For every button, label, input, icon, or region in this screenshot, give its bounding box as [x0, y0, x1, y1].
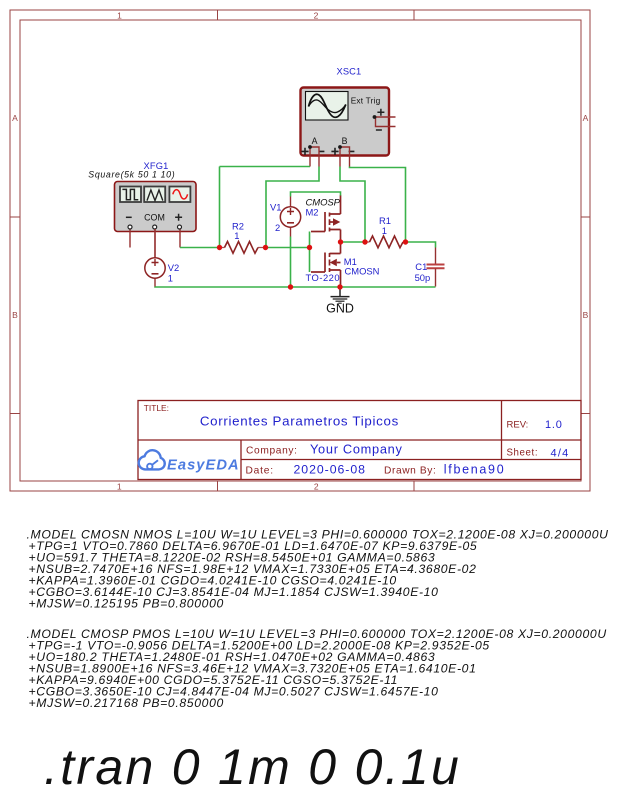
svg-text:GND: GND: [326, 302, 354, 316]
svg-text:V1: V1: [270, 202, 281, 213]
svg-text:1: 1: [234, 230, 239, 241]
ext trig pin: [373, 109, 396, 130]
wire V1 minus down to ground rail: [290, 237, 292, 288]
voltage source V2: [145, 229, 179, 287]
spice model text CMOSN: [27, 528, 609, 611]
svg-text:TITLE:: TITLE:: [144, 403, 169, 413]
svg-text:50p: 50p: [415, 272, 431, 283]
svg-text:Date:: Date:: [246, 465, 274, 476]
wire A+ horizontal: [220, 166, 311, 168]
svg-text:V2: V2: [168, 262, 179, 273]
svg-text:Corrientes Parametros Tipicos: Corrientes Parametros Tipicos: [200, 413, 399, 428]
pin - stub: [129, 229, 131, 248]
svg-text:Square(5k 50 1 10): Square(5k 50 1 10): [88, 170, 175, 180]
spice model text CMOSP: [27, 627, 607, 710]
wire B- to R1 right node: [350, 167, 406, 243]
wire R2 to gate bracket: [265, 247, 310, 249]
wire top rail V1 to M2 source: [291, 192, 341, 197]
wire gate bracket vertical: [309, 232, 311, 273]
junction node V1 minus: [288, 284, 293, 289]
junction node drain: [338, 239, 343, 244]
wire R1 right to C1 top: [406, 242, 436, 248]
resistor R1: [365, 215, 406, 248]
svg-text:1: 1: [382, 225, 387, 236]
svg-text:A: A: [583, 113, 589, 123]
svg-text:2020-06-08: 2020-06-08: [294, 463, 366, 477]
svg-text:Your Company: Your Company: [310, 442, 403, 457]
wire A+ vertical to input node: [219, 167, 221, 248]
junction node R2 right: [263, 245, 268, 250]
wire A- to gate node: [266, 167, 319, 248]
svg-text:TO-220: TO-220: [306, 272, 341, 283]
svg-text:B: B: [342, 136, 348, 146]
svg-text:2: 2: [314, 482, 319, 492]
svg-text:M2: M2: [306, 207, 319, 218]
scope channel A pins: [301, 145, 324, 166]
scope channel B pins: [331, 145, 354, 166]
svg-text:Drawn By:: Drawn By:: [384, 465, 436, 476]
wire XFG+ to node A: [180, 247, 220, 249]
junction node ground: [337, 284, 342, 289]
svg-text:Company:: Company:: [246, 445, 298, 456]
wire B+ to drain node: [340, 167, 365, 243]
voltage source V1: [270, 197, 301, 237]
svg-text:+MJSW=0.125195 PB=0.800000: +MJSW=0.125195 PB=0.800000: [29, 597, 224, 611]
svg-text:1: 1: [117, 482, 122, 492]
svg-text:1.0: 1.0: [545, 419, 563, 431]
wire node A to R2: [220, 247, 223, 249]
ground: [326, 287, 354, 316]
svg-text:REV:: REV:: [507, 419, 529, 430]
junction node R1 right: [403, 239, 408, 244]
transistor M2 (PMOS CMOSP): [306, 196, 341, 243]
pin COM stub: [154, 229, 156, 258]
svg-text:4/4: 4/4: [551, 448, 570, 460]
resistor R2: [220, 221, 265, 254]
svg-text:CMOSN: CMOSN: [345, 266, 380, 277]
svg-text:2: 2: [314, 11, 319, 21]
svg-text:EasyEDA: EasyEDA: [167, 458, 240, 474]
svg-text:B: B: [12, 310, 18, 320]
svg-text:B: B: [583, 310, 589, 320]
svg-text:1: 1: [168, 272, 173, 283]
oscilloscope XSC1: [301, 67, 396, 167]
EasyEDA logo: [139, 450, 240, 473]
sheet frame: [10, 10, 590, 491]
capacitor C1: [415, 248, 445, 287]
svg-text:+MJSW=0.217168 PB=0.850000: +MJSW=0.217168 PB=0.850000: [29, 696, 224, 710]
svg-text:lfbena90: lfbena90: [444, 463, 506, 477]
svg-text:Sheet:: Sheet:: [507, 448, 539, 459]
svg-text:2: 2: [275, 222, 280, 233]
transistor M1 (NMOS CMOSN): [306, 242, 380, 287]
svg-text:.tran 0 1m 0 0.1u: .tran 0 1m 0 0.1u: [44, 739, 461, 795]
svg-text:Ext Trig: Ext Trig: [351, 96, 381, 106]
function generator XFG1: [88, 161, 196, 257]
junction node gate: [307, 245, 312, 250]
junction node R1 left: [362, 239, 367, 244]
svg-text:A: A: [312, 136, 318, 146]
pin + stub: [179, 229, 181, 248]
svg-text:1: 1: [117, 11, 122, 21]
svg-text:XSC1: XSC1: [337, 67, 362, 77]
title block: [138, 401, 581, 480]
svg-text:C1: C1: [415, 261, 427, 272]
svg-text:A: A: [12, 113, 18, 123]
wire ground rail: [155, 286, 436, 289]
junction node input: [217, 245, 222, 250]
svg-text:COM: COM: [144, 212, 165, 222]
wire drain node to R1: [341, 241, 366, 243]
frame zone labels: [12, 11, 589, 492]
